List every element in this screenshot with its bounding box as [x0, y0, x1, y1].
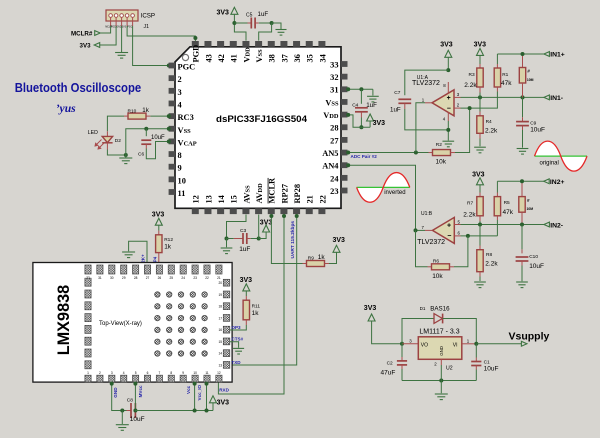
resistor R6 10k: [428, 266, 432, 268]
op-amp U1:B TLV2372: [433, 217, 455, 243]
wire ICSP pin3 to ground: [121, 26, 123, 53]
svg-text:C5: C5: [246, 12, 253, 18]
svg-text:D1: D1: [420, 306, 426, 311]
wire 3V3 to VDD top: [234, 14, 246, 40]
svg-text:R3: R3: [469, 72, 475, 78]
capacitor C10 10uF: [521, 225, 523, 250]
svg-text:11: 11: [205, 371, 209, 375]
svg-text:23: 23: [330, 187, 338, 196]
resistor R4 2.2k body: [477, 116, 483, 134]
wire C5 right to VSS top and ground: [255, 22, 259, 24]
resistor R8 2.2k body: [477, 250, 483, 272]
svg-text:D2: D2: [115, 138, 121, 144]
connector J1 ICSP header: [106, 10, 138, 21]
ground (C3): [226, 239, 228, 248]
terminal Vsupply: [521, 341, 527, 346]
svg-text:23: 23: [193, 276, 197, 280]
svg-text:25: 25: [170, 276, 174, 280]
svg-text:22: 22: [205, 276, 209, 280]
svg-text:2.2k: 2.2k: [463, 212, 476, 219]
svg-text:2.2k: 2.2k: [464, 82, 477, 89]
svg-text:27: 27: [146, 276, 150, 280]
svg-text:24: 24: [181, 276, 185, 280]
U1:B output stub pin7: [425, 229, 433, 231]
svg-text:26: 26: [158, 276, 162, 280]
wire inverting row (pin6): [461, 235, 498, 237]
svg-text:VSS: VSS: [325, 98, 339, 107]
svg-text:10k: 10k: [432, 273, 443, 280]
resistor R12 1k body: [156, 235, 162, 253]
svg-text:3: 3: [111, 371, 113, 375]
svg-text:BAS16: BAS16: [430, 306, 450, 313]
waveform original sine: [535, 141, 561, 156]
svg-text:PGC: PGC: [178, 63, 196, 72]
svg-text:14: 14: [217, 194, 226, 203]
resistor R10 1k: [128, 113, 146, 119]
svg-text:6: 6: [147, 371, 149, 375]
ground (R8): [474, 282, 486, 288]
capacitor C2 plates: [397, 361, 407, 365]
wire IN2+ row: [497, 180, 543, 182]
ground for 32K+ pad: [129, 241, 147, 266]
svg-text:inverted: inverted: [384, 190, 405, 196]
svg-text:18: 18: [218, 305, 222, 309]
ground (C10): [516, 282, 528, 288]
svg-text:J1: J1: [144, 24, 150, 30]
svg-text:21: 21: [306, 195, 315, 203]
capacitor C9 plates: [516, 122, 529, 126]
svg-text:28: 28: [330, 124, 338, 133]
svg-text:’yus: ’yus: [56, 101, 76, 115]
wire GND pad3 down: [112, 383, 127, 411]
svg-text:3V3: 3V3: [472, 171, 485, 178]
svg-text:35: 35: [306, 54, 315, 62]
svg-text:3V3: 3V3: [217, 10, 230, 17]
svg-text:RXD: RXD: [219, 387, 229, 392]
svg-text:28: 28: [134, 276, 138, 280]
svg-text:−: −: [447, 233, 451, 240]
U1:A output stub pin1: [425, 102, 432, 104]
svg-text:29: 29: [122, 276, 126, 280]
svg-text:R8: R8: [486, 252, 492, 258]
svg-text:IN1-: IN1-: [550, 95, 563, 102]
svg-text:+: +: [447, 95, 451, 102]
svg-text:AN4: AN4: [322, 162, 339, 171]
svg-text:R12: R12: [164, 237, 173, 243]
svg-text:AN5: AN5: [322, 149, 338, 158]
wire 3V3 rail to C7: [405, 70, 449, 95]
svg-text:RC3: RC3: [178, 113, 194, 122]
svg-text:12: 12: [192, 195, 201, 203]
svg-text:10: 10: [193, 371, 197, 375]
resistor R7 2.2k: [479, 193, 481, 197]
capacitor C8 10uF: [127, 410, 132, 412]
wire ICSP pin4 to PGD: [127, 26, 195, 42]
svg-text:1uF: 1uF: [258, 11, 269, 18]
resistor R11 1k body: [243, 300, 249, 320]
svg-text:ICSP: ICSP: [141, 12, 155, 19]
svg-text:C3: C3: [240, 228, 246, 234]
svg-text:1k: 1k: [164, 243, 172, 250]
terminal IN2+: [544, 179, 550, 184]
svg-text:+: +: [447, 222, 451, 229]
resistor R12 1k: [158, 231, 160, 235]
svg-text:RP28: RP28: [293, 184, 302, 204]
svg-text:1uF: 1uF: [239, 246, 250, 253]
ground (CTS#): [233, 348, 244, 354]
wire RP28 column (TXD): [230, 215, 297, 366]
svg-text:13: 13: [218, 363, 222, 367]
svg-text:22: 22: [318, 195, 327, 203]
svg-text:2: 2: [99, 371, 101, 375]
resistor R5 47k: [496, 181, 498, 192]
bias resistor # 10M (upper): [522, 54, 524, 68]
resistor R1 47k: [496, 54, 498, 64]
bias resistor # 10M (lower): [521, 181, 523, 196]
svg-text:LMX9838: LMX9838: [54, 285, 73, 356]
ground symbol C3: [221, 248, 233, 254]
svg-text:R5: R5: [504, 200, 510, 206]
svg-text:3V3: 3V3: [333, 237, 346, 244]
svg-text:ADC Pair #2: ADC Pair #2: [351, 154, 378, 159]
svg-text:Vcc_IO: Vcc_IO: [197, 384, 202, 400]
svg-text:1k: 1k: [318, 254, 326, 261]
capacitor C5: [251, 18, 255, 29]
capacitor C9 10uF: [522, 97, 524, 117]
wire VSS left to ground: [126, 129, 168, 158]
svg-text:3V3: 3V3: [474, 41, 487, 48]
svg-text:33: 33: [330, 60, 338, 69]
diode D1 BAS16: [402, 319, 434, 344]
svg-text:VSS: VSS: [255, 49, 264, 63]
svg-text:MVcc: MVcc: [138, 385, 143, 397]
svg-text:1k: 1k: [142, 107, 149, 114]
terminal IN2-: [544, 222, 550, 227]
wire Vcc_IO pad11 down: [206, 383, 208, 411]
regulator ground rail: [402, 380, 476, 382]
svg-text:47k: 47k: [503, 209, 514, 216]
U1:A input stubs: [454, 96, 461, 98]
svg-text:Vsupply: Vsupply: [509, 331, 550, 343]
svg-text:10k: 10k: [436, 158, 447, 165]
wire R6 right to pin6 row: [454, 236, 468, 267]
resistor R9 1k body: [307, 261, 325, 267]
svg-text:42: 42: [217, 54, 226, 62]
svg-text:10uF: 10uF: [529, 263, 544, 270]
svg-text:3V3: 3V3: [373, 120, 386, 127]
svg-text:15: 15: [218, 340, 222, 344]
svg-text:R6: R6: [433, 259, 439, 265]
svg-text:MCLR: MCLR: [268, 177, 277, 204]
LED D2 emission arrows: [95, 140, 105, 150]
svg-text:3V3: 3V3: [260, 219, 273, 226]
svg-text:C6: C6: [138, 152, 144, 158]
svg-text:OP3: OP3: [231, 325, 241, 330]
svg-text:38: 38: [268, 54, 277, 62]
svg-text:VCAP: VCAP: [178, 138, 197, 147]
wire U1:A pin4 to ground: [447, 121, 449, 141]
ground (ICSP): [115, 53, 128, 59]
svg-text:21: 21: [217, 276, 221, 280]
svg-text:3: 3: [178, 88, 182, 97]
capacitor C1 plates: [471, 362, 481, 366]
terminal IN1+: [544, 52, 550, 57]
ground (R4): [474, 147, 486, 153]
svg-text:R7: R7: [467, 201, 473, 207]
svg-text:LM1117 - 3.3: LM1117 - 3.3: [419, 329, 459, 336]
svg-text:14: 14: [218, 352, 222, 356]
resistor R8 2.2k: [479, 225, 481, 246]
resistor R5 47k body: [494, 197, 500, 216]
wire VO row: [400, 342, 404, 346]
svg-text:7: 7: [159, 371, 161, 375]
module right pad column 20..13: [223, 279, 230, 286]
wire IN2- / non-inverting row: [461, 224, 544, 226]
svg-text:3V3: 3V3: [122, 27, 127, 29]
svg-text:43: 43: [204, 54, 213, 62]
power 3V3 (module rail): [212, 403, 214, 411]
capacitor C1 10uF: [475, 344, 477, 358]
svg-text:C8: C8: [127, 398, 133, 404]
svg-text:R11: R11: [252, 304, 261, 310]
wire U1:A output to AN5 row: [416, 103, 425, 153]
svg-text:UART 115.2kbps: UART 115.2kbps: [290, 221, 296, 259]
svg-text:IN1+: IN1+: [550, 52, 565, 59]
power 3V3 (R9): [333, 245, 340, 252]
resistor R7 2.2k body: [477, 197, 483, 216]
wire C5 left: [234, 22, 247, 24]
wire RP27 column (RXD): [218, 215, 284, 395]
svg-text:VO: VO: [421, 342, 428, 348]
svg-text:IN2+: IN2+: [550, 179, 565, 186]
svg-text:3V3: 3V3: [80, 43, 92, 50]
svg-text:−: −: [447, 105, 451, 112]
wire ICSP pin1 to MCLR# terminal: [100, 26, 110, 33]
wire LED cathode to ground: [107, 150, 125, 156]
wire AN5 row to op-amp/R2: [348, 152, 429, 154]
resistor R3 2.2k body: [477, 68, 483, 87]
svg-text:U1:B: U1:B: [421, 211, 433, 217]
svg-text:C2: C2: [387, 361, 393, 367]
svg-text:41: 41: [230, 54, 239, 62]
svg-text:Bluetooth Oscilloscope: Bluetooth Oscilloscope: [15, 80, 142, 95]
svg-text:AVDD: AVDD: [255, 183, 264, 204]
svg-text:#: #: [527, 69, 530, 74]
svg-text:3V3: 3V3: [152, 211, 165, 218]
wire C6 to VCAP: [146, 142, 168, 159]
svg-text:#: #: [527, 198, 530, 203]
svg-text:VSS: VSS: [178, 126, 192, 135]
svg-text:31: 31: [330, 86, 338, 95]
svg-text:R2: R2: [436, 142, 442, 148]
svg-text:20: 20: [218, 281, 222, 285]
waveform inverted sine: [357, 187, 384, 202]
svg-text:IN2-: IN2-: [550, 222, 563, 229]
capacitor C3 plates: [243, 233, 247, 244]
resistor R3 2.2k: [479, 64, 481, 68]
capacitor C4 1uF: [355, 108, 368, 112]
terminal MCLR#: [95, 31, 101, 36]
terminal IN1-: [544, 95, 550, 100]
svg-text:31: 31: [98, 276, 102, 280]
LED D2: [106, 131, 108, 136]
resistor R1 47k body: [494, 68, 500, 87]
wire pin31 row to ground and C4: [348, 88, 373, 90]
svg-text:30: 30: [110, 276, 114, 280]
capacitor C10 plates: [516, 257, 529, 261]
resistor R2 10k body: [433, 150, 451, 156]
capacitor C6 10uF: [141, 140, 151, 144]
wire RC3 row: [150, 115, 168, 117]
svg-text:GND: GND: [113, 387, 118, 398]
wire AN4 row down to U1:B output: [348, 165, 416, 230]
svg-text:11: 11: [178, 189, 186, 198]
svg-text:TLV2372: TLV2372: [412, 80, 440, 87]
svg-text:AVSS: AVSS: [242, 185, 251, 204]
resistor # body (lower): [519, 197, 525, 213]
resistor R6 10k body: [432, 264, 450, 270]
svg-text:12: 12: [217, 371, 221, 375]
capacitor C2 47uF: [401, 344, 403, 357]
svg-text:10M: 10M: [527, 78, 534, 82]
IC U3 dsPIC33FJ16GS504 QFP-44 body: [175, 47, 341, 209]
U1:B input stubs: [454, 224, 460, 226]
svg-text:47k: 47k: [501, 80, 512, 87]
svg-text:PGC: PGC: [127, 27, 132, 29]
svg-text:2.2k: 2.2k: [485, 261, 498, 268]
wire VDD right to 3V3: [348, 115, 370, 127]
svg-text:24: 24: [330, 174, 339, 183]
svg-text:1uF: 1uF: [390, 107, 401, 114]
regulator U2 LM1117-3.3 body: [418, 337, 462, 360]
svg-text:15: 15: [230, 195, 239, 203]
svg-text:2: 2: [178, 75, 182, 84]
bottom 3V3 rail: [135, 410, 213, 412]
svg-text:original: original: [540, 160, 559, 166]
svg-text:37: 37: [280, 54, 289, 62]
wire AVDD down: [258, 215, 260, 239]
ground (module): [120, 409, 124, 413]
svg-text:34: 34: [318, 53, 327, 62]
op-amp U1:A TLV2372: [432, 90, 454, 116]
svg-text:8: 8: [170, 371, 172, 375]
ground symbol module: [116, 425, 129, 431]
svg-text:3V3: 3V3: [440, 42, 453, 49]
svg-text:1: 1: [87, 371, 89, 375]
terminal 3V3 (top left): [94, 43, 100, 48]
svg-text:MCLR#: MCLR#: [71, 30, 93, 37]
svg-text:TLV2372: TLV2372: [417, 239, 445, 246]
svg-text:4: 4: [123, 371, 125, 375]
svg-text:RP27: RP27: [280, 184, 289, 204]
U3 pin-1 marker circle: [182, 54, 188, 60]
U1:A supply stubs pins 8,4: [447, 82, 449, 94]
ground (U1:A pin4): [442, 141, 454, 147]
module inner circle pads grid: [155, 292, 160, 297]
power 3V3 (right of chip): [369, 121, 371, 127]
power 3V3 (AVDD): [259, 232, 266, 239]
svg-text:10uF: 10uF: [130, 416, 145, 423]
svg-text:8: 8: [178, 151, 182, 160]
wire AVSS to C3: [227, 215, 247, 239]
svg-text:5: 5: [135, 371, 137, 375]
ground symbol regulator: [435, 394, 448, 400]
svg-text:R1: R1: [502, 72, 508, 78]
wire ICSP pin2 to 3V3 terminal: [100, 26, 116, 45]
svg-text:10uF: 10uF: [530, 127, 545, 134]
ground (VSS/LED): [119, 158, 132, 164]
U3 pins (44 pads): [192, 41, 199, 47]
resistor R11 1k: [245, 296, 247, 300]
svg-text:Vcc: Vcc: [186, 385, 191, 394]
svg-text:19: 19: [218, 293, 222, 297]
svg-text:3V3: 3V3: [240, 277, 253, 284]
wire Vcc pad10 down: [194, 383, 196, 411]
wire CTS# to ground: [230, 342, 239, 348]
svg-text:3V3: 3V3: [364, 305, 377, 312]
resistor R9 1k: [303, 263, 307, 265]
module left pad column (33..40): [85, 278, 91, 286]
capacitor C3 1uF: [227, 238, 234, 240]
svg-text:R10: R10: [128, 108, 137, 114]
svg-text:C7: C7: [394, 90, 400, 96]
svg-text:GND: GND: [439, 346, 444, 356]
svg-text:36: 36: [293, 54, 302, 62]
svg-text:13: 13: [204, 195, 213, 203]
svg-text:16: 16: [218, 328, 222, 332]
svg-text:9: 9: [182, 371, 184, 375]
wire VSS to C6: [144, 127, 148, 131]
wire MCLR down to R9: [271, 215, 302, 264]
wire ICSP pin5 to PGC: [133, 26, 169, 66]
module U4 LMX9838 outline: [33, 263, 232, 383]
svg-text:VDD: VDD: [242, 47, 251, 63]
svg-text:32: 32: [330, 73, 338, 82]
ground symbol 32K+: [122, 252, 135, 258]
svg-text:U2: U2: [446, 366, 453, 372]
wire IN1+ row: [497, 53, 544, 55]
svg-text:LED: LED: [88, 130, 98, 136]
svg-text:2.2k: 2.2k: [485, 127, 498, 134]
resistor # body (upper): [519, 68, 525, 84]
wire non-inverting row (IN1-): [461, 96, 544, 98]
svg-text:VI: VI: [453, 342, 458, 348]
resistor R2 10k: [429, 152, 433, 154]
capacitor C7 1uF: [398, 99, 411, 103]
svg-text:27: 27: [330, 136, 338, 145]
svg-text:10: 10: [178, 176, 186, 185]
svg-text:CTS#: CTS#: [231, 337, 243, 342]
svg-text:9: 9: [178, 164, 182, 173]
svg-text:10uF: 10uF: [484, 366, 499, 373]
svg-text:dsPIC33FJ16GS504: dsPIC33FJ16GS504: [216, 114, 308, 125]
svg-text:1uF: 1uF: [366, 102, 377, 109]
svg-text:10uF: 10uF: [151, 135, 165, 141]
svg-text:Top-View(X-ray): Top-View(X-ray): [99, 321, 142, 327]
svg-text:R4: R4: [486, 119, 492, 125]
wire VI row to Vsupply: [462, 343, 477, 345]
ground (C5): [275, 30, 286, 36]
resistor R4 2.2k: [479, 97, 481, 111]
module top pads 32..21: [85, 265, 91, 274]
wire MVcc pad5 down: [134, 383, 136, 411]
wire U1:B output to AN4 column and R6: [416, 229, 426, 231]
svg-text:10M: 10M: [527, 207, 534, 211]
svg-text:C10: C10: [529, 254, 538, 260]
svg-text:TXD: TXD: [231, 360, 241, 365]
svg-text:3V3: 3V3: [217, 399, 230, 406]
svg-text:17: 17: [218, 316, 222, 320]
